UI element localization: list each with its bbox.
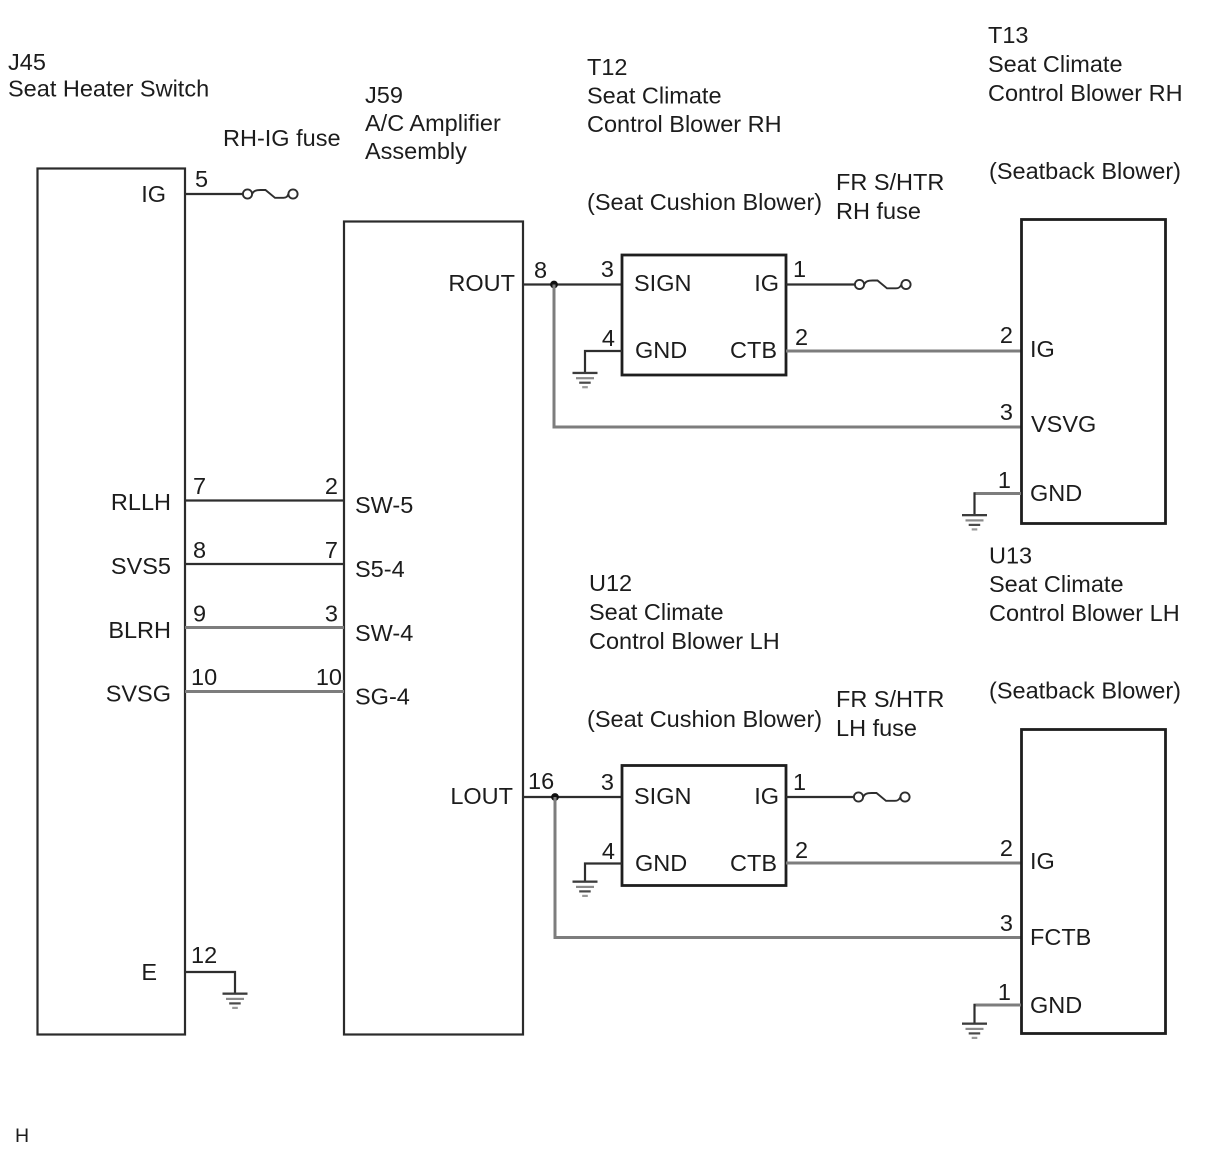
wire U12 GND pin 4 to ground: [585, 864, 622, 881]
svg-text:10: 10: [191, 664, 217, 690]
ground T12: [573, 372, 598, 389]
svg-text:CTB: CTB: [730, 337, 777, 363]
wire E pin 12 to ground: [185, 972, 235, 993]
svg-text:J59: J59: [365, 82, 403, 108]
svg-text:LOUT: LOUT: [450, 783, 513, 809]
svg-text:16: 16: [528, 768, 554, 794]
wire BLRH to SW-4: [185, 626, 344, 629]
svg-text:T12: T12: [587, 54, 628, 80]
svg-text:SVSG: SVSG: [106, 681, 171, 707]
svg-text:(Seat Cushion Blower): (Seat Cushion Blower): [587, 189, 822, 215]
svg-text:SW-4: SW-4: [355, 620, 413, 646]
wire RLLH to SW-5: [185, 499, 344, 501]
wire IG pin 5 to fuse: [185, 193, 243, 195]
svg-text:SIGN: SIGN: [634, 270, 691, 296]
junction node ROUT: [550, 281, 558, 289]
svg-text:IG: IG: [1030, 336, 1055, 362]
svg-text:LH fuse: LH fuse: [836, 715, 917, 741]
svg-text:1: 1: [793, 256, 806, 282]
wire SVSG to SG-4: [185, 690, 344, 693]
svg-text:(Seat Cushion Blower): (Seat Cushion Blower): [587, 706, 822, 732]
svg-text:10: 10: [316, 664, 342, 690]
svg-text:Control Blower LH: Control Blower LH: [589, 628, 780, 654]
svg-text:A/C Amplifier: A/C Amplifier: [365, 110, 501, 136]
fuse FR S/HTR RH: [855, 280, 911, 289]
svg-text:Assembly: Assembly: [365, 138, 467, 164]
svg-text:7: 7: [325, 537, 338, 563]
svg-text:BLRH: BLRH: [108, 617, 171, 643]
connector T13 Seat Climate Control Blower RH box: [1022, 220, 1166, 524]
svg-text:1: 1: [998, 979, 1011, 1005]
svg-text:(Seatback Blower): (Seatback Blower): [989, 678, 1181, 704]
svg-text:Seat Heater Switch: Seat Heater Switch: [8, 76, 209, 102]
wire T12 IG pin 1 to FR S/HTR RH fuse: [786, 283, 854, 285]
wire U13 GND pin 1 to ground: [974, 1004, 1022, 1007]
svg-text:RLLH: RLLH: [111, 489, 171, 515]
svg-text:GND: GND: [635, 337, 687, 363]
wire T12 GND pin 4 to ground: [585, 351, 622, 372]
svg-text:SVS5: SVS5: [111, 553, 171, 579]
svg-text:RH-IG fuse: RH-IG fuse: [223, 125, 341, 151]
svg-text:3: 3: [601, 256, 614, 282]
wire LOUT to SIGN: [523, 796, 622, 798]
svg-text:Seat Climate: Seat Climate: [989, 571, 1124, 597]
svg-text:2: 2: [795, 324, 808, 350]
fuse RH-IG: [243, 189, 298, 198]
svg-text:U13: U13: [989, 543, 1032, 569]
ground E: [223, 993, 248, 1010]
svg-text:SIGN: SIGN: [634, 783, 691, 809]
connector U12 Seat Climate Control Blower LH box: [622, 766, 786, 886]
svg-text:5: 5: [195, 166, 208, 192]
wire ROUT to SIGN: [523, 283, 622, 285]
connector J45 Seat Heater Switch box: [38, 169, 186, 1035]
svg-text:IG: IG: [1030, 848, 1055, 874]
svg-text:2: 2: [795, 837, 808, 863]
wire U12 CTB pin 2 to U13 IG pin 2: [786, 862, 1022, 865]
svg-text:U12: U12: [589, 570, 632, 596]
svg-text:IG: IG: [754, 270, 779, 296]
svg-text:S5-4: S5-4: [355, 556, 405, 582]
svg-text:GND: GND: [1030, 992, 1082, 1018]
svg-text:3: 3: [1000, 910, 1013, 936]
svg-text:Control Blower RH: Control Blower RH: [988, 80, 1183, 106]
svg-text:Seat Climate: Seat Climate: [589, 599, 724, 625]
svg-text:Seat Climate: Seat Climate: [988, 51, 1123, 77]
wire LOUT branch down to FCTB: [555, 797, 1022, 938]
svg-text:CTB: CTB: [730, 850, 777, 876]
svg-text:GND: GND: [635, 850, 687, 876]
svg-text:T13: T13: [988, 22, 1029, 48]
svg-text:2: 2: [1000, 322, 1013, 348]
svg-text:E: E: [141, 959, 157, 985]
connector J59 A/C Amplifier Assembly box: [344, 222, 523, 1035]
connector T12 Seat Climate Control Blower RH box: [622, 255, 786, 375]
svg-text:8: 8: [534, 257, 547, 283]
svg-text:Control Blower LH: Control Blower LH: [989, 600, 1180, 626]
svg-text:8: 8: [193, 537, 206, 563]
svg-text:12: 12: [191, 942, 217, 968]
svg-text:ROUT: ROUT: [448, 270, 515, 296]
svg-text:Seat Climate: Seat Climate: [587, 83, 722, 109]
svg-text:9: 9: [193, 601, 206, 627]
wire U12 IG pin 1 to FR S/HTR LH fuse: [786, 796, 853, 798]
svg-text:IG: IG: [754, 783, 779, 809]
svg-text:SG-4: SG-4: [355, 684, 410, 710]
svg-text:2: 2: [1000, 835, 1013, 861]
fuse FR S/HTR LH: [854, 792, 910, 801]
svg-text:1: 1: [998, 467, 1011, 493]
svg-text:4: 4: [602, 838, 615, 864]
svg-text:2: 2: [325, 473, 338, 499]
svg-text:3: 3: [1000, 399, 1013, 425]
svg-text:7: 7: [193, 473, 206, 499]
svg-text:FR S/HTR: FR S/HTR: [836, 169, 944, 195]
wire T12 CTB pin 2 to T13 IG pin 2: [786, 350, 1022, 353]
svg-text:1: 1: [793, 769, 806, 795]
svg-text:Control Blower RH: Control Blower RH: [587, 111, 782, 137]
connector U13 Seat Climate Control Blower LH box: [1022, 730, 1166, 1034]
wire SVS5 to S5-4: [185, 563, 344, 565]
svg-text:RH fuse: RH fuse: [836, 198, 921, 224]
svg-text:(Seatback Blower): (Seatback Blower): [989, 158, 1181, 184]
wire T13 GND pin 1 to ground: [974, 492, 1022, 495]
svg-text:IG: IG: [141, 181, 166, 207]
svg-text:H: H: [15, 1125, 29, 1147]
svg-text:FCTB: FCTB: [1030, 924, 1091, 950]
svg-text:3: 3: [325, 601, 338, 627]
ground U13: [962, 1023, 987, 1040]
svg-text:3: 3: [601, 769, 614, 795]
svg-text:FR S/HTR: FR S/HTR: [836, 686, 944, 712]
svg-text:VSVG: VSVG: [1031, 411, 1096, 437]
svg-text:SW-5: SW-5: [355, 492, 413, 518]
svg-text:4: 4: [602, 325, 615, 351]
svg-text:J45: J45: [8, 49, 46, 75]
svg-text:GND: GND: [1030, 480, 1082, 506]
junction node LOUT: [551, 793, 559, 801]
wire ROUT branch down to VSVG: [554, 285, 1022, 428]
ground T13: [962, 514, 987, 531]
ground U12: [573, 881, 598, 898]
